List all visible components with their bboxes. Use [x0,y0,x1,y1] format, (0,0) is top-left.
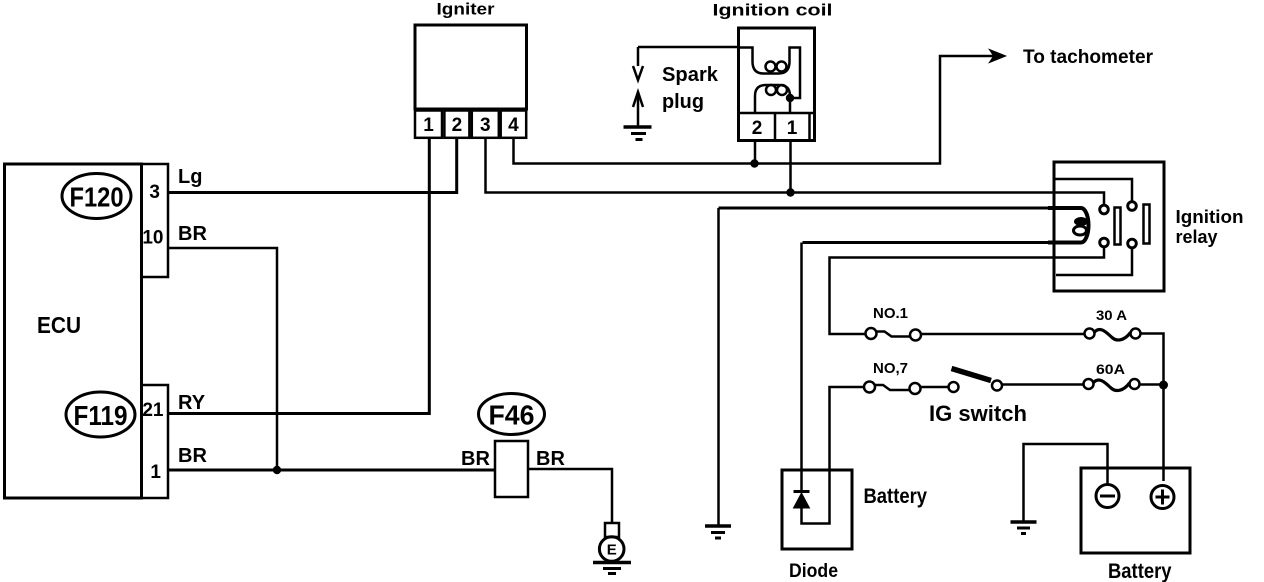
wire 60A to junction [1140,383,1164,386]
relay contact bottom-left [1100,238,1109,247]
coil primary loops [766,85,776,95]
fuse 60A [1084,379,1140,391]
wire coil pin1 down [789,141,792,193]
svg-text:2: 2 [752,118,763,139]
wire diode to fuse NO.7 [802,387,865,524]
junction dot coil pin1 wire [786,188,794,196]
battery plus terminal [1151,486,1174,509]
relay contact bottom-right [1128,239,1137,248]
svg-text:Lg: Lg [178,166,202,188]
relay coil wire with U-turn [719,208,1051,243]
svg-text:Ignition coil: Ignition coil [713,1,833,20]
junction dot BR [273,466,281,474]
spark plug ground [624,125,652,129]
svg-text:Battery: Battery [864,485,928,508]
connector F46 oval [479,394,545,435]
relay contact top-right [1128,202,1137,211]
svg-text:ECU: ECU [37,312,81,338]
coil secondary loops [766,62,776,72]
svg-text:relay: relay [1176,227,1218,247]
ground bars left [705,524,731,528]
connector F46 body [495,441,528,497]
ECU lower connector tab [142,385,169,498]
ground bars battery [1011,520,1037,524]
svg-text:BR: BR [536,448,565,470]
svg-text:3: 3 [149,182,160,203]
svg-text:Igniter: Igniter [437,0,495,19]
svg-text:BR: BR [178,445,207,467]
relay internal top wire [1056,179,1133,202]
connector F120 [62,174,131,219]
fuse NO.7 [864,382,921,395]
svg-text:3: 3 [480,115,491,136]
IG switch lever [952,369,992,381]
wire NO.1 to fuse 30A [921,333,1085,336]
wire RY: ECU pin21 to igniter pin1 [168,138,429,414]
wire coil pin2 down [754,141,757,164]
wire igniter pin3 to coil pin1 and relay [486,138,1105,205]
svg-text:BR: BR [178,223,207,245]
Spark plug wire from coil [638,46,739,49]
coil secondary winding [739,48,801,99]
svg-text:F119: F119 [74,400,128,431]
Ignition relay box [1054,162,1164,291]
wire Lg: ECU pin3 to igniter pin2 [168,138,457,193]
junction dot coil pin2 wire [750,159,758,167]
relay coil loops [1074,217,1088,226]
svg-text:Diode: Diode [789,561,838,582]
svg-text:2: 2 [452,115,463,136]
svg-text:Spark: Spark [662,64,719,86]
relay contact bar right [1144,205,1150,244]
svg-text:IG switch: IG switch [929,401,1027,426]
wire NO.7 to IG switch [921,386,949,389]
wire battery minus to ground [1024,444,1108,522]
ECU upper connector tab [142,164,169,277]
svg-text:RY: RY [178,392,206,414]
svg-text:plug: plug [662,91,704,113]
wire relay coil to ground [717,208,720,526]
Igniter pin 2 cell [444,111,469,138]
diode D1 [794,492,810,509]
coil primary winding [755,85,790,113]
relay internal bottom wire [1056,248,1132,275]
battery minus terminal [1096,485,1119,508]
svg-text:30 A: 30 A [1096,307,1127,323]
Igniter pin 1 cell [415,111,442,138]
svg-text:BR: BR [461,448,490,470]
svg-text:Ignition: Ignition [1176,207,1244,227]
wire 30A to battery vertical [1141,334,1164,482]
svg-text:NO,7: NO,7 [873,360,908,377]
svg-text:21: 21 [142,400,164,421]
wire F46 to ground E [528,469,612,523]
IG switch contact right [992,381,1002,391]
spark plug down arrow [633,47,643,80]
svg-text:4: 4 [508,115,519,136]
Battery box [1081,468,1190,553]
svg-text:E: E [607,542,617,559]
coil pin row divider [739,112,815,115]
ground E bars [593,561,631,565]
relay bottom-left contact wire to fuse NO.1 [830,247,1105,334]
fuse NO.1 [866,328,922,341]
Diode box [782,470,852,549]
spark plug up arrow [633,92,643,127]
IG switch contact left [949,382,959,392]
Igniter pin 4 cell [501,111,527,138]
svg-text:1: 1 [787,118,798,139]
Igniter pin 3 cell [472,111,499,138]
svg-text:Battery: Battery [1108,560,1172,582]
ground E connector square [605,523,619,537]
fuse 30A [1085,329,1141,341]
wire IG switch to fuse 60A [1002,383,1084,386]
junction dot 60A output [1159,381,1168,390]
arrowhead to tachometer [990,50,1005,62]
wire BR: ECU pin10 down to BR junction [168,248,277,470]
Ignition coil box [739,28,815,141]
connector F119 [66,392,135,437]
svg-text:To tachometer: To tachometer [1023,47,1154,68]
Igniter box [415,25,527,109]
wire igniter pin4 to coil pin2 and tachometer [514,56,1000,164]
svg-text:60A: 60A [1096,361,1125,377]
ground E circle [599,537,624,562]
svg-text:10: 10 [142,228,163,249]
wire BR: ECU pin1 to connector F46 [168,469,495,472]
svg-text:1: 1 [423,115,434,136]
coil pin cell divider [774,113,777,141]
coil internal junction dot [786,94,794,102]
svg-text:1: 1 [150,462,161,483]
wire relay coil to diode [800,243,803,492]
svg-text:F120: F120 [70,182,124,213]
svg-text:NO.1: NO.1 [873,305,908,322]
svg-text:F46: F46 [489,400,535,431]
ECU box U1 [5,164,142,498]
relay contact bar left [1115,208,1121,245]
relay contact top-left [1100,205,1109,214]
